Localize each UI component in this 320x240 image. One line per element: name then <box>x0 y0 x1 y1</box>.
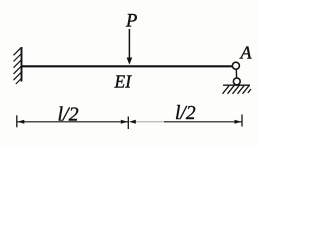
roller support A: lower pin circle <box>233 78 240 85</box>
dimension line left segment l/2 <box>17 121 128 123</box>
dimension arrowhead left (points left) <box>17 120 24 124</box>
dimension arrowhead right (points right) <box>235 120 242 124</box>
dimension arrowhead mid-right (points left) <box>129 120 136 124</box>
dimension tick right <box>241 115 243 127</box>
svg-text:A: A <box>240 43 253 63</box>
svg-text:l/2: l/2 <box>58 104 79 126</box>
load P arrow stem <box>128 29 130 59</box>
roller support A: upper pin circle <box>232 62 239 69</box>
svg-text:l/2: l/2 <box>175 103 196 124</box>
dimension line right segment l/2 (solid part) <box>164 121 242 123</box>
fixed support hatching <box>14 47 22 84</box>
svg-text:P: P <box>125 12 137 32</box>
fixed support wall line <box>21 47 23 82</box>
dimension tick middle <box>127 117 129 130</box>
roller support A: ground line <box>223 84 250 86</box>
svg-text:EI: EI <box>114 71 133 91</box>
beam EI <box>22 65 234 67</box>
roller support A: ground hatching <box>223 85 252 94</box>
roller support A: link <box>235 67 238 80</box>
dimension tick left <box>16 115 18 127</box>
dimension arrowhead mid-left (points right) <box>121 120 128 124</box>
load P arrowhead <box>127 58 133 65</box>
dimension line right segment l/2 (faint part) <box>133 121 166 123</box>
